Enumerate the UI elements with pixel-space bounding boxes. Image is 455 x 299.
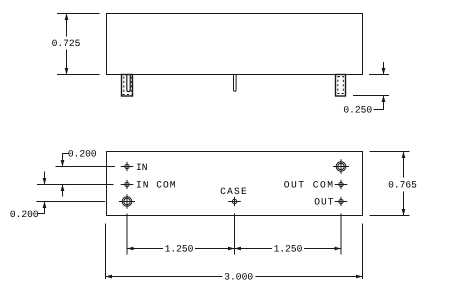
svg-text:0.765: 0.765 — [388, 180, 417, 191]
svg-text:OUT COM: OUT COM — [284, 180, 335, 191]
dimension 0.200 upper arrow below line2 — [61, 185, 65, 197]
svg-text:IN COM: IN COM — [136, 180, 177, 191]
extension line row IN — [56, 166, 116, 168]
pin CASE symbol — [228, 197, 241, 206]
svg-text:0.250: 0.250 — [343, 104, 372, 115]
dimension 3.000 dimension line with arrows — [106, 275, 363, 279]
extension line below pin column case — [234, 214, 236, 255]
case pin (middle pin, side view) — [234, 75, 237, 91]
dimension 0.250 arrow below with leader — [374, 96, 386, 110]
dimension 0.200 lower arrow above line2 — [43, 172, 47, 185]
dimension 1.250 right dimension line with arrows — [235, 247, 342, 251]
dimension 0.250 extension line top — [369, 74, 389, 76]
dimension 0.725 extension line top — [57, 13, 100, 15]
dimension 0.250 arrow above — [382, 62, 386, 75]
dimension 1.250 left dimension line with arrows — [127, 247, 235, 251]
extension line below left edge — [105, 224, 107, 280]
extension line row IN COM — [37, 184, 114, 186]
mounting hole bottom-left — [119, 194, 135, 209]
svg-text:OUT: OUT — [314, 197, 334, 208]
top view: module body outline — [107, 14, 363, 75]
svg-text:3.000: 3.000 — [224, 272, 253, 283]
dimension 0.765 dimension line with arrows — [402, 152, 406, 216]
svg-text:1.250: 1.250 — [165, 244, 194, 255]
svg-text:0.725: 0.725 — [52, 38, 81, 49]
extension line row bottom — [37, 201, 106, 203]
extension line below pin column right — [340, 214, 342, 255]
dimension 0.725 extension line bottom — [57, 74, 100, 76]
svg-text:CASE: CASE — [220, 186, 248, 197]
pin 1 (left pin, side view) — [122, 75, 133, 97]
pin IN symbol — [121, 162, 134, 171]
dimension 0.725 dimension line with arrows — [65, 14, 69, 75]
dimension 0.765 extension line top — [370, 151, 410, 153]
dimension 0.250 extension line bottom — [353, 95, 389, 97]
dimension 0.765 extension line bottom — [370, 215, 410, 217]
mounting hole top-right — [333, 159, 349, 174]
bottom view: module body outline — [107, 152, 363, 216]
svg-text:IN: IN — [136, 162, 148, 173]
svg-text:1.250: 1.250 — [274, 244, 303, 255]
pin IN COM symbol — [121, 180, 134, 189]
extension line below pin column left — [126, 214, 128, 255]
pin 5 (right pin, side view) — [336, 75, 346, 97]
pin OUT COM symbol — [335, 180, 348, 189]
dimension 0.200 lower leader arrow — [38, 202, 46, 214]
pin OUT symbol — [335, 197, 348, 206]
svg-text:0.200: 0.200 — [10, 209, 39, 220]
svg-text:0.200: 0.200 — [68, 149, 97, 160]
extension line below right edge — [362, 224, 364, 280]
dimension 0.200 upper leader arrow — [61, 154, 69, 167]
